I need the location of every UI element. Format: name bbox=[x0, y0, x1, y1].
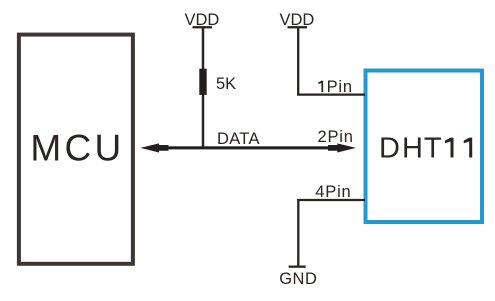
svg-text:Pin: Pin bbox=[327, 78, 353, 96]
MCU box U1 bbox=[19, 35, 133, 264]
wire resistor to DATA node bbox=[202, 95, 205, 149]
resistor R1 5K bbox=[199, 69, 206, 95]
DATA bus wire bbox=[164, 146, 332, 149]
DHT11 label bbox=[379, 133, 472, 165]
wire VDD to resistor bbox=[202, 27, 205, 70]
GND terminal bar bbox=[289, 266, 306, 268]
svg-text:DHT: DHT bbox=[379, 133, 442, 165]
DHT11 box U2 bbox=[366, 71, 483, 223]
svg-text:MCU: MCU bbox=[30, 128, 124, 169]
VDD terminal bar (left) bbox=[193, 26, 213, 28]
wire VDD to 1Pin bbox=[298, 27, 365, 95]
arrowhead into DHT11 bbox=[328, 143, 356, 152]
VDD terminal bar (right) bbox=[288, 26, 308, 28]
svg-text:2Pin: 2Pin bbox=[318, 128, 354, 146]
svg-text:GND: GND bbox=[279, 270, 317, 288]
wire 4Pin to GND bbox=[298, 200, 365, 267]
svg-text:DATA: DATA bbox=[217, 130, 260, 148]
1Pin pin label bbox=[318, 78, 353, 96]
svg-text:5K: 5K bbox=[216, 75, 236, 93]
arrowhead into MCU bbox=[140, 143, 168, 152]
svg-text:4Pin: 4Pin bbox=[315, 183, 351, 201]
